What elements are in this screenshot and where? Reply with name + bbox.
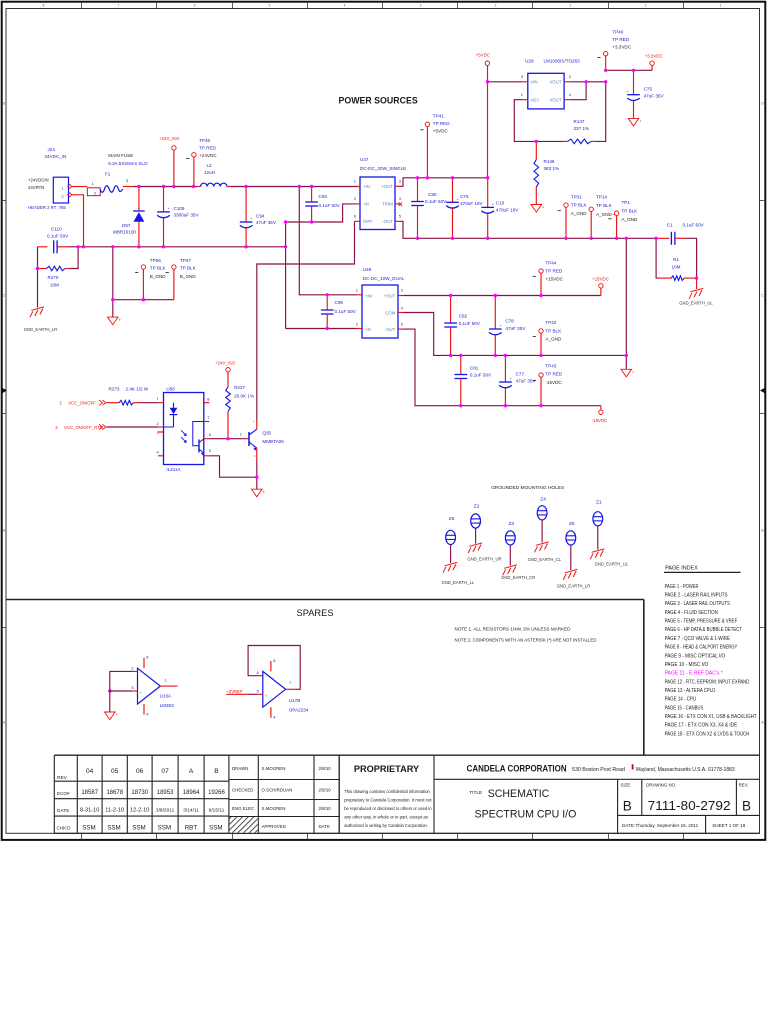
- svg-text:+3VREF: +3VREF: [226, 689, 243, 694]
- svg-text:A: A: [189, 768, 194, 775]
- svg-text:18953: 18953: [157, 790, 174, 796]
- svg-text:2.4K 1/2 W: 2.4K 1/2 W: [126, 387, 149, 392]
- capacitor C94 47uF 35V: [240, 187, 277, 247]
- resistor R227 20.0K 1%: [226, 372, 254, 439]
- wire to earth LR: [37, 269, 39, 308]
- svg-text:+OUT: +OUT: [381, 184, 393, 189]
- svg-text:ECO#: ECO#: [57, 791, 70, 796]
- size drawing number rev block: [618, 779, 760, 833]
- svg-text:B_GND: B_GND: [180, 274, 197, 279]
- capacitor C78 47uF 35V: [489, 296, 526, 356]
- svg-text:PAGE 7 - QCO VALVE & 1-WIRE: PAGE 7 - QCO VALVE & 1-WIRE: [665, 636, 731, 642]
- svg-text:C95: C95: [335, 300, 344, 305]
- svg-text:PAGE 11 - E REF DAC's *: PAGE 11 - E REF DAC's *: [665, 671, 723, 677]
- wire U48 +IN feed: [299, 187, 356, 295]
- mounting hole Z2: [467, 504, 501, 562]
- svg-text:Thursday, September 15, 2011: Thursday, September 15, 2011: [636, 823, 699, 828]
- net +3VREF input: [226, 689, 257, 694]
- svg-text:SSM: SSM: [158, 825, 171, 832]
- svg-text:10M: 10M: [50, 282, 59, 287]
- svg-text:+24V_ISO: +24V_ISO: [215, 361, 236, 366]
- svg-text:This drawing contains confiden: This drawing contains confidential infor…: [344, 789, 430, 794]
- svg-text:TP BLK: TP BLK: [571, 203, 588, 208]
- svg-text:3: 3: [420, 4, 422, 8]
- svg-text:237 1%: 237 1%: [574, 126, 590, 131]
- svg-text:+IN: +IN: [363, 184, 370, 189]
- svg-text:0.1uF 50V: 0.1uF 50V: [319, 203, 341, 208]
- svg-text:PAGE 1 - POWER: PAGE 1 - POWER: [665, 584, 699, 590]
- wire VOUT pin4 loop: [570, 82, 586, 100]
- transistor Q35 MMBTA06: [249, 420, 284, 459]
- wire U48 COM to mid rail: [404, 313, 627, 356]
- power -15VDC: [592, 406, 608, 423]
- wire +5 to U28 VIN: [488, 81, 523, 83]
- regulator U48 DC-DC_10W_DUAL: [356, 267, 405, 338]
- svg-text:470uF 16V: 470uF 16V: [496, 208, 519, 213]
- svg-text:1: 1: [570, 4, 572, 8]
- svg-text:530 Boston Post Road: 530 Boston Post Road: [572, 767, 625, 773]
- svg-text:3300uF 35V: 3300uF 35V: [174, 212, 200, 217]
- svg-text:Z5: Z5: [449, 516, 455, 522]
- capacitor C77 47uF 35V: [499, 355, 536, 405]
- svg-text:DATE: DATE: [57, 808, 69, 814]
- svg-text:-IN: -IN: [365, 327, 371, 332]
- wire -IN down to U48: [285, 222, 287, 329]
- svg-text:18964: 18964: [183, 790, 200, 796]
- capacitor C81 0.1uF 50V: [455, 355, 493, 405]
- svg-text:0.1uF 50V: 0.1uF 50V: [470, 373, 492, 378]
- svg-text:+5VDC: +5VDC: [476, 53, 490, 58]
- svg-text:8: 8: [43, 4, 45, 8]
- svg-text:PAGE 5 - TEMP, PRESSURE & VREF: PAGE 5 - TEMP, PRESSURE & VREF: [665, 619, 738, 625]
- svg-text:A_GND: A_GND: [596, 212, 613, 217]
- svg-text:GND_EARTH_CR: GND_EARTH_CR: [501, 575, 535, 580]
- op-amp U17B OPA2234: [257, 658, 309, 720]
- svg-text:SCHEMATIC: SCHEMATIC: [488, 788, 550, 800]
- svg-text:R147: R147: [574, 119, 585, 124]
- wire U56 pin5 to emitter: [209, 456, 256, 477]
- svg-text:1: 1: [645, 4, 647, 8]
- ground A triangle U10A: [105, 712, 116, 720]
- svg-text:R270: R270: [48, 275, 59, 280]
- wire A_GND riser to mid rail: [625, 238, 627, 355]
- svg-text:0.1uF 50V: 0.1uF 50V: [425, 199, 447, 204]
- svg-text:VIN: VIN: [531, 80, 538, 85]
- svg-text:PAGE 16 - ETX CON X1, USB & B: PAGE 16 - ETX CON X1, USB & BACKLIGHT: [665, 714, 758, 720]
- svg-text:RBT: RBT: [185, 825, 198, 832]
- testpoint TP46: [186, 138, 217, 187]
- svg-text:DC-DC_20W_SINGLE: DC-DC_20W_SINGLE: [360, 166, 406, 171]
- svg-text:47uF 35V: 47uF 35V: [644, 94, 665, 99]
- port VCC_ON/OFF: [59, 400, 106, 406]
- svg-text:8-31-10: 8-31-10: [80, 808, 99, 814]
- wire U28 VOUT bus: [570, 81, 606, 83]
- svg-text:ADJ: ADJ: [531, 98, 539, 103]
- svg-text:20.0K 1%: 20.0K 1%: [234, 394, 254, 399]
- svg-text:HEADER 2 RT .765: HEADER 2 RT .765: [28, 205, 66, 210]
- svg-text:2/9/10: 2/9/10: [319, 806, 332, 811]
- svg-text:+: +: [250, 217, 252, 221]
- svg-text:TP40: TP40: [612, 30, 623, 35]
- svg-text:SSM: SSM: [132, 825, 145, 832]
- svg-text:+24VDC: +24VDC: [199, 153, 217, 158]
- svg-text:06: 06: [136, 768, 144, 775]
- svg-text:B_GND: B_GND: [150, 274, 167, 279]
- svg-text:DATE: DATE: [319, 824, 330, 829]
- inductor L2 12uH: [197, 163, 231, 187]
- svg-text:B: B: [119, 318, 121, 322]
- svg-text:U48: U48: [363, 267, 372, 272]
- svg-text:GND_EARTH_CL: GND_EARTH_CL: [528, 557, 562, 562]
- svg-text:0.1uF 50V: 0.1uF 50V: [47, 233, 69, 238]
- capacitor C95 0.1uF 50V: [321, 295, 357, 329]
- svg-text:18730: 18730: [131, 790, 148, 796]
- svg-text:SPECTRUM CPU I/O: SPECTRUM CPU I/O: [475, 809, 577, 821]
- ground B triangle opto: [252, 489, 263, 497]
- svg-text:0.1uF 50V: 0.1uF 50V: [335, 309, 357, 314]
- connector J24 24VDC_IN: [28, 147, 72, 210]
- svg-text:TP RED: TP RED: [545, 372, 562, 377]
- svg-text:B: B: [742, 799, 751, 814]
- svg-text:Z2: Z2: [474, 504, 480, 510]
- svg-text:authorized in writing by Cande: authorized in writing by Candela Corpora…: [344, 823, 428, 828]
- svg-text:D57: D57: [122, 223, 131, 228]
- svg-text:OPA2234: OPA2234: [289, 708, 309, 713]
- wire U17B feedback loop: [248, 646, 300, 690]
- svg-text:CHK'D: CHK'D: [57, 825, 72, 830]
- svg-text:MAIN FUSE: MAIN FUSE: [108, 153, 133, 158]
- svg-text:C1: C1: [667, 223, 673, 228]
- svg-text:6.3A 5X20mm SLO: 6.3A 5X20mm SLO: [108, 161, 148, 166]
- svg-text:C94: C94: [256, 213, 265, 218]
- ground B_GND triangle: [108, 317, 119, 325]
- svg-text:PAGE 15 - CANBUS: PAGE 15 - CANBUS: [665, 705, 704, 711]
- company block: [434, 755, 760, 833]
- optocoupler U56 IL211A: [156, 387, 211, 472]
- mounting hole Z4: [528, 497, 562, 563]
- svg-text:PAGE 6 - HP DATA & BUBBLE DETE: PAGE 6 - HP DATA & BUBBLE DETECT: [665, 627, 743, 633]
- svg-text:VCC_ON/OFF: VCC_ON/OFF: [68, 401, 96, 406]
- svg-text:O.SCHIRDUAN: O.SCHIRDUAN: [262, 788, 293, 793]
- power +5VDC riser: [476, 53, 490, 178]
- svg-text:TP RED: TP RED: [545, 268, 562, 273]
- svg-text:47uF 35V: 47uF 35V: [256, 220, 277, 225]
- svg-text:3/14/11: 3/14/11: [183, 808, 199, 814]
- svg-text:C110: C110: [51, 227, 62, 232]
- svg-text:2: 2: [495, 4, 497, 8]
- svg-text:GND_EARTH_LR: GND_EARTH_LR: [24, 327, 57, 332]
- resistor R270 10M: [38, 247, 79, 287]
- ground GND_EARTH_LR: [24, 307, 57, 332]
- proprietary notice: [339, 755, 432, 833]
- capacitor C10 470uF 16V: [481, 178, 519, 239]
- svg-text:+24VDCIN: +24VDCIN: [28, 178, 49, 183]
- ground A triangle mid: [621, 369, 632, 377]
- svg-text:GROUNDED MOUNTING HOLES: GROUNDED MOUNTING HOLES: [491, 485, 564, 491]
- wire U47 -IN net: [286, 221, 312, 223]
- svg-text:TP RED: TP RED: [433, 121, 450, 126]
- svg-text:IL211A: IL211A: [166, 467, 181, 472]
- testpoint TP43: [533, 364, 563, 406]
- svg-text:+5VDC: +5VDC: [433, 129, 449, 134]
- svg-text:Q35: Q35: [262, 431, 271, 436]
- wire Q35 collector stub: [256, 421, 258, 430]
- svg-text:TP BLK: TP BLK: [622, 208, 639, 213]
- svg-text:PAGE 8 - HEAD & CALPORT ENERGY: PAGE 8 - HEAD & CALPORT ENERGY: [665, 645, 738, 651]
- svg-text:383 1%: 383 1%: [544, 166, 560, 171]
- svg-text:R227: R227: [234, 385, 245, 390]
- svg-text:7111-80-2792: 7111-80-2792: [648, 798, 731, 813]
- svg-text:GND_EARTH_UL: GND_EARTH_UL: [595, 562, 629, 567]
- svg-text:MBR10100: MBR10100: [113, 229, 136, 234]
- diode D57 MBR10100: [113, 187, 145, 247]
- svg-text:+15VDC: +15VDC: [592, 277, 609, 282]
- spares area box: [6, 600, 644, 756]
- capacitor C76 470uF 16V: [446, 178, 483, 239]
- svg-text:-OUT: -OUT: [385, 327, 396, 332]
- svg-text:2/9/10: 2/9/10: [319, 788, 332, 793]
- svg-text:DRAWING NO.: DRAWING NO.: [646, 783, 676, 788]
- svg-text:TP BLK: TP BLK: [596, 203, 613, 208]
- resistor R146 383 1%: [534, 141, 559, 204]
- svg-text:-IN: -IN: [363, 202, 369, 207]
- svg-text:2/9/10: 2/9/10: [319, 766, 332, 771]
- svg-text:TP RED: TP RED: [612, 37, 629, 42]
- svg-text:4: 4: [344, 4, 346, 8]
- svg-text:C75: C75: [644, 87, 653, 92]
- svg-text:TP RED: TP RED: [199, 145, 216, 150]
- svg-text:11-2-10: 11-2-10: [105, 808, 124, 814]
- svg-text:DATE:: DATE:: [622, 823, 635, 828]
- svg-text:A_GND: A_GND: [622, 217, 639, 222]
- svg-text:TP BLK: TP BLK: [150, 265, 167, 270]
- fuse F1: [100, 153, 148, 192]
- svg-text:A: A: [542, 205, 544, 209]
- mounting hole Z6: [557, 521, 590, 589]
- wire to earth UL: [696, 278, 698, 289]
- svg-text:+: +: [492, 203, 494, 207]
- svg-text:TP42: TP42: [545, 320, 556, 325]
- svg-text:TP46: TP46: [199, 138, 210, 143]
- svg-text:TP47: TP47: [180, 258, 191, 263]
- svg-text:TP41: TP41: [433, 114, 444, 119]
- svg-text:+3.3VDC: +3.3VDC: [612, 45, 631, 50]
- svg-text:APPROVED: APPROVED: [262, 824, 286, 829]
- svg-text:B: B: [263, 490, 265, 494]
- capacitor C1 0.1uF 50V: [656, 223, 705, 263]
- svg-text:proprietary to Candela Corpora: proprietary to Candela Corporation. It m…: [344, 798, 432, 803]
- svg-text:+: +: [457, 198, 459, 202]
- svg-text:TP BLK: TP BLK: [180, 265, 197, 270]
- svg-text:SSM: SSM: [107, 825, 120, 832]
- svg-text:REV.: REV.: [739, 783, 749, 788]
- svg-text:TP BLK: TP BLK: [545, 328, 562, 333]
- svg-text:12uH: 12uH: [204, 170, 215, 175]
- wire J24 pin2 down: [72, 195, 84, 247]
- svg-text:-15VDC: -15VDC: [592, 418, 608, 423]
- svg-text:R146: R146: [544, 159, 555, 164]
- svg-text:A: A: [640, 119, 642, 123]
- svg-text:any other way, in whole or in: any other way, in whole or in part, exce…: [344, 815, 428, 820]
- svg-text:+24V_ISO: +24V_ISO: [159, 136, 180, 141]
- svg-text:C81: C81: [470, 365, 479, 370]
- svg-text:C78: C78: [505, 319, 514, 324]
- wire U47 /OFF control net: [257, 221, 355, 420]
- svg-text:U56: U56: [166, 387, 175, 392]
- svg-text:B: B: [623, 799, 632, 814]
- mounting hole Z1: [590, 500, 629, 567]
- svg-text:POWER SOURCES: POWER SOURCES: [339, 96, 418, 106]
- svg-text:SHEET 1 OF 18: SHEET 1 OF 18: [712, 823, 746, 828]
- svg-text:470uF 16V: 470uF 16V: [460, 201, 483, 206]
- svg-text:LM393: LM393: [160, 703, 174, 708]
- svg-text:SSM: SSM: [209, 825, 222, 832]
- svg-text:TP1: TP1: [622, 200, 631, 205]
- svg-text:SIZE: SIZE: [621, 783, 631, 788]
- svg-text:PAGE 18 - ETX CON X2 & LVDS &: PAGE 18 - ETX CON X2 & LVDS & TOUCH: [665, 731, 750, 737]
- svg-text:PAGE 13 - ALTERA CPLD: PAGE 13 - ALTERA CPLD: [665, 688, 716, 694]
- svg-text:0.1uF 50V: 0.1uF 50V: [683, 223, 705, 228]
- wire Q35 emitter net: [256, 448, 258, 460]
- svg-text:TP14: TP14: [596, 195, 607, 200]
- svg-text:A_GND: A_GND: [545, 336, 562, 341]
- svg-text:12-2-10: 12-2-10: [130, 808, 149, 814]
- svg-text:GND_EARTH_UL: GND_EARTH_UL: [679, 300, 713, 305]
- svg-text:C76: C76: [460, 194, 469, 199]
- testpoint TP44: [533, 261, 564, 296]
- svg-text:CHECKED: CHECKED: [232, 788, 253, 793]
- svg-text:GND_EARTH_UR: GND_EARTH_UR: [467, 557, 501, 562]
- svg-text:VCC_ON/OFF_RTN: VCC_ON/OFF_RTN: [64, 425, 103, 430]
- svg-text:+3.3VDC: +3.3VDC: [645, 54, 663, 59]
- svg-text:-OUT: -OUT: [382, 219, 393, 224]
- mounting hole Z5: [442, 516, 475, 585]
- svg-text:C93: C93: [319, 194, 328, 199]
- regulator U47 DC-DC_20W_SINGLE: [354, 157, 406, 230]
- svg-text:PAGE INDEX: PAGE INDEX: [665, 566, 698, 572]
- wire fuse to +24V bus: [123, 186, 134, 188]
- svg-text:S.MOGREN: S.MOGREN: [262, 766, 286, 771]
- wire emitter to ground: [256, 477, 258, 489]
- wire ADJ to R147: [514, 100, 562, 142]
- svg-text:A_GND: A_GND: [571, 211, 588, 216]
- svg-text:PAGE 12 - RTC, EEPROM; INPUT E: PAGE 12 - RTC, EEPROM; INPUT EXPAND: [665, 679, 750, 685]
- ground GND_EARTH_UL: [679, 288, 713, 305]
- svg-text:9/15/11: 9/15/11: [209, 808, 225, 814]
- wire R147 to VOUT riser: [597, 82, 606, 142]
- svg-text:A: A: [632, 370, 634, 374]
- wire U10A input loop: [110, 671, 132, 691]
- svg-text:+OUT: +OUT: [384, 293, 396, 298]
- testpoint TP1: [608, 200, 638, 238]
- regulator U28 LM1085IS/TO263: [521, 58, 580, 109]
- svg-text:47uF 35V: 47uF 35V: [516, 379, 537, 384]
- capacitor C109 3300uF 35V: [157, 187, 199, 247]
- wire U56 pin6 to Q35 base: [209, 438, 244, 440]
- capacitor C110 0.1uF 50V: [38, 227, 70, 254]
- svg-text:PAGE 2 - LASER RAIL INPUTS: PAGE 2 - LASER RAIL INPUTS: [665, 593, 728, 599]
- resistor R1 10M: [656, 238, 697, 280]
- testpoint TP31: [558, 194, 588, 238]
- svg-text:+IN: +IN: [365, 293, 372, 298]
- capacitor C75 47uF 35V: [627, 70, 665, 118]
- wire +24V input bus: [134, 186, 197, 188]
- svg-text:C77: C77: [516, 371, 525, 376]
- svg-text:PAGE 17 - ETX CON X3, X4 & IDE: PAGE 17 - ETX CON X3, X4 & IDE: [665, 723, 738, 729]
- svg-text:L2: L2: [207, 163, 213, 168]
- svg-text:ENG ELEC: ENG ELEC: [232, 806, 254, 811]
- svg-text:+: +: [168, 207, 170, 211]
- op-amp U10A LM393: [131, 655, 177, 717]
- wire U47 -OUT to A_GND rail: [401, 221, 657, 238]
- wire +24V bus after L2: [231, 186, 360, 188]
- wire R273 to U56 pin1: [141, 402, 159, 404]
- title block: [54, 755, 759, 833]
- svg-text:C82: C82: [459, 314, 468, 319]
- svg-text:SSM: SSM: [82, 825, 95, 832]
- svg-text:TP43: TP43: [545, 364, 556, 369]
- svg-text:TITLE: TITLE: [469, 790, 482, 796]
- svg-text:B: B: [214, 768, 219, 775]
- wire RTN to U56 pin2: [107, 426, 159, 428]
- svg-text:R273: R273: [109, 387, 120, 392]
- svg-text:VOUT: VOUT: [550, 80, 562, 85]
- svg-text:NOTE 2. COMPONENTS WITH AN AST: NOTE 2. COMPONENTS WITH AN ASTERISK (*) …: [455, 637, 598, 642]
- wire B_GND testpoint branch: [112, 247, 114, 300]
- svg-text:F1: F1: [105, 171, 111, 176]
- svg-text:REV: REV: [57, 775, 68, 781]
- mounting hole Z3: [501, 521, 535, 580]
- svg-text:TRIM: TRIM: [382, 202, 393, 207]
- svg-text:U10A: U10A: [160, 694, 172, 699]
- svg-text:+: +: [627, 90, 629, 94]
- svg-text:Z4: Z4: [540, 497, 546, 503]
- svg-text:COM: COM: [385, 311, 395, 316]
- svg-text:0.1uF 50V: 0.1uF 50V: [459, 321, 481, 326]
- ground A triangle under C75: [628, 118, 639, 126]
- svg-text:PAGE 14 - CPU: PAGE 14 - CPU: [665, 697, 697, 703]
- svg-text:18587: 18587: [81, 790, 98, 796]
- svg-text:1: 1: [720, 4, 722, 8]
- power +15VDC: [592, 277, 609, 296]
- svg-text:DC-DC_10W_DUAL: DC-DC_10W_DUAL: [363, 276, 405, 281]
- power +24V_ISO at R227: [226, 368, 230, 372]
- svg-text:C109: C109: [174, 206, 185, 211]
- svg-text:PAGE 4 - FLUID SECTION: PAGE 4 - FLUID SECTION: [665, 610, 718, 616]
- svg-text:PROPRIETARY: PROPRIETARY: [354, 764, 419, 774]
- capacitor C82 0.1uF 50V: [444, 296, 481, 356]
- svg-text:Z1: Z1: [596, 500, 602, 506]
- svg-text:19266: 19266: [208, 790, 225, 796]
- testpoint TP14: [589, 195, 617, 239]
- wire U48 -IN: [286, 328, 356, 330]
- capacitor C80 0.1uF 50V: [411, 178, 447, 239]
- svg-text:PAGE 10 - MISC I/O: PAGE 10 - MISC I/O: [665, 662, 709, 668]
- svg-text:GND_EARTH_LR: GND_EARTH_LR: [557, 584, 590, 589]
- port VCC_ON/OFF_RTN: [55, 424, 106, 430]
- svg-text:24VDC_IN: 24VDC_IN: [45, 154, 67, 159]
- svg-text:R1: R1: [673, 257, 679, 262]
- wire +3.3V rail: [606, 69, 652, 71]
- fuse holder tie: [87, 181, 100, 196]
- svg-text:47uF 35V: 47uF 35V: [505, 326, 526, 331]
- svg-text:TP31: TP31: [571, 194, 582, 199]
- svg-text:DRAWN: DRAWN: [232, 766, 248, 771]
- title schematic block: [469, 788, 576, 821]
- svg-text:Z6: Z6: [569, 521, 575, 527]
- svg-text:PAGE 9 - MISC OPTICAL I/O: PAGE 9 - MISC OPTICAL I/O: [665, 653, 726, 659]
- svg-text:U17B: U17B: [289, 698, 301, 703]
